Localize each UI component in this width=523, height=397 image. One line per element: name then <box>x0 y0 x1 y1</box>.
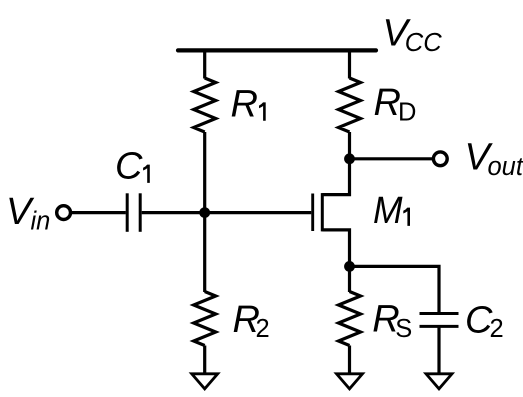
resistor R2 <box>194 292 216 346</box>
svg-text:R: R <box>374 82 401 124</box>
wire C1 to gate of M1 <box>142 211 312 214</box>
capacitor C1 left plate <box>126 193 129 232</box>
wire gate node to R2 <box>203 213 206 292</box>
resistor R1 <box>194 78 216 132</box>
transistor M1 gate bar <box>311 194 314 232</box>
ground below C2 <box>426 374 452 389</box>
wire RS to ground <box>348 346 351 374</box>
svg-text:R: R <box>231 84 258 126</box>
wire RD to drain node <box>348 132 351 159</box>
wire Vin terminal to C1 <box>71 211 126 214</box>
svg-text:D: D <box>398 98 416 126</box>
wire C2 to ground <box>437 328 440 374</box>
VCC rail <box>178 48 376 52</box>
wire rail to R1 <box>203 50 206 78</box>
label VCC <box>383 12 443 57</box>
label R2 <box>233 299 270 343</box>
svg-text:out: out <box>488 153 523 181</box>
label RD <box>374 82 417 126</box>
label C1 <box>115 145 150 187</box>
node: drain node dot <box>344 153 355 164</box>
wire R2 to ground <box>203 346 206 374</box>
capacitor C2 bottom plate <box>420 325 459 328</box>
label R1 <box>231 84 266 126</box>
wire source node to RS <box>348 266 351 292</box>
svg-text:M: M <box>373 190 403 232</box>
svg-text:2: 2 <box>256 315 270 343</box>
transistor M1 drain lead <box>322 159 349 195</box>
label Vout <box>465 136 523 181</box>
label C2 <box>465 299 504 343</box>
svg-text:CC: CC <box>405 29 442 57</box>
svg-text:2: 2 <box>490 315 504 343</box>
transistor M1 source lead <box>322 230 349 267</box>
capacitor C2 top plate <box>420 312 459 315</box>
capacitor C1 right plate <box>139 193 142 232</box>
svg-text:C: C <box>115 145 143 187</box>
terminal Vout <box>433 152 447 166</box>
node: source node dot <box>344 261 355 272</box>
label M1 <box>373 190 410 232</box>
label Vin <box>6 191 50 236</box>
resistor RS <box>339 292 361 346</box>
resistor RD <box>339 78 361 132</box>
node: gate node dot <box>199 207 210 218</box>
terminal Vin <box>57 206 71 220</box>
svg-text:in: in <box>31 207 51 235</box>
ground below RS <box>337 374 363 389</box>
transistor M1 channel bar <box>321 193 324 231</box>
wire source node to C2 <box>350 266 440 312</box>
svg-text:S: S <box>395 315 412 343</box>
wire drain node to Vout terminal <box>350 157 433 160</box>
ground below R2 <box>192 374 218 389</box>
label RS <box>372 299 412 344</box>
wire R1 to gate node <box>203 132 206 213</box>
wire rail to RD <box>348 50 351 78</box>
